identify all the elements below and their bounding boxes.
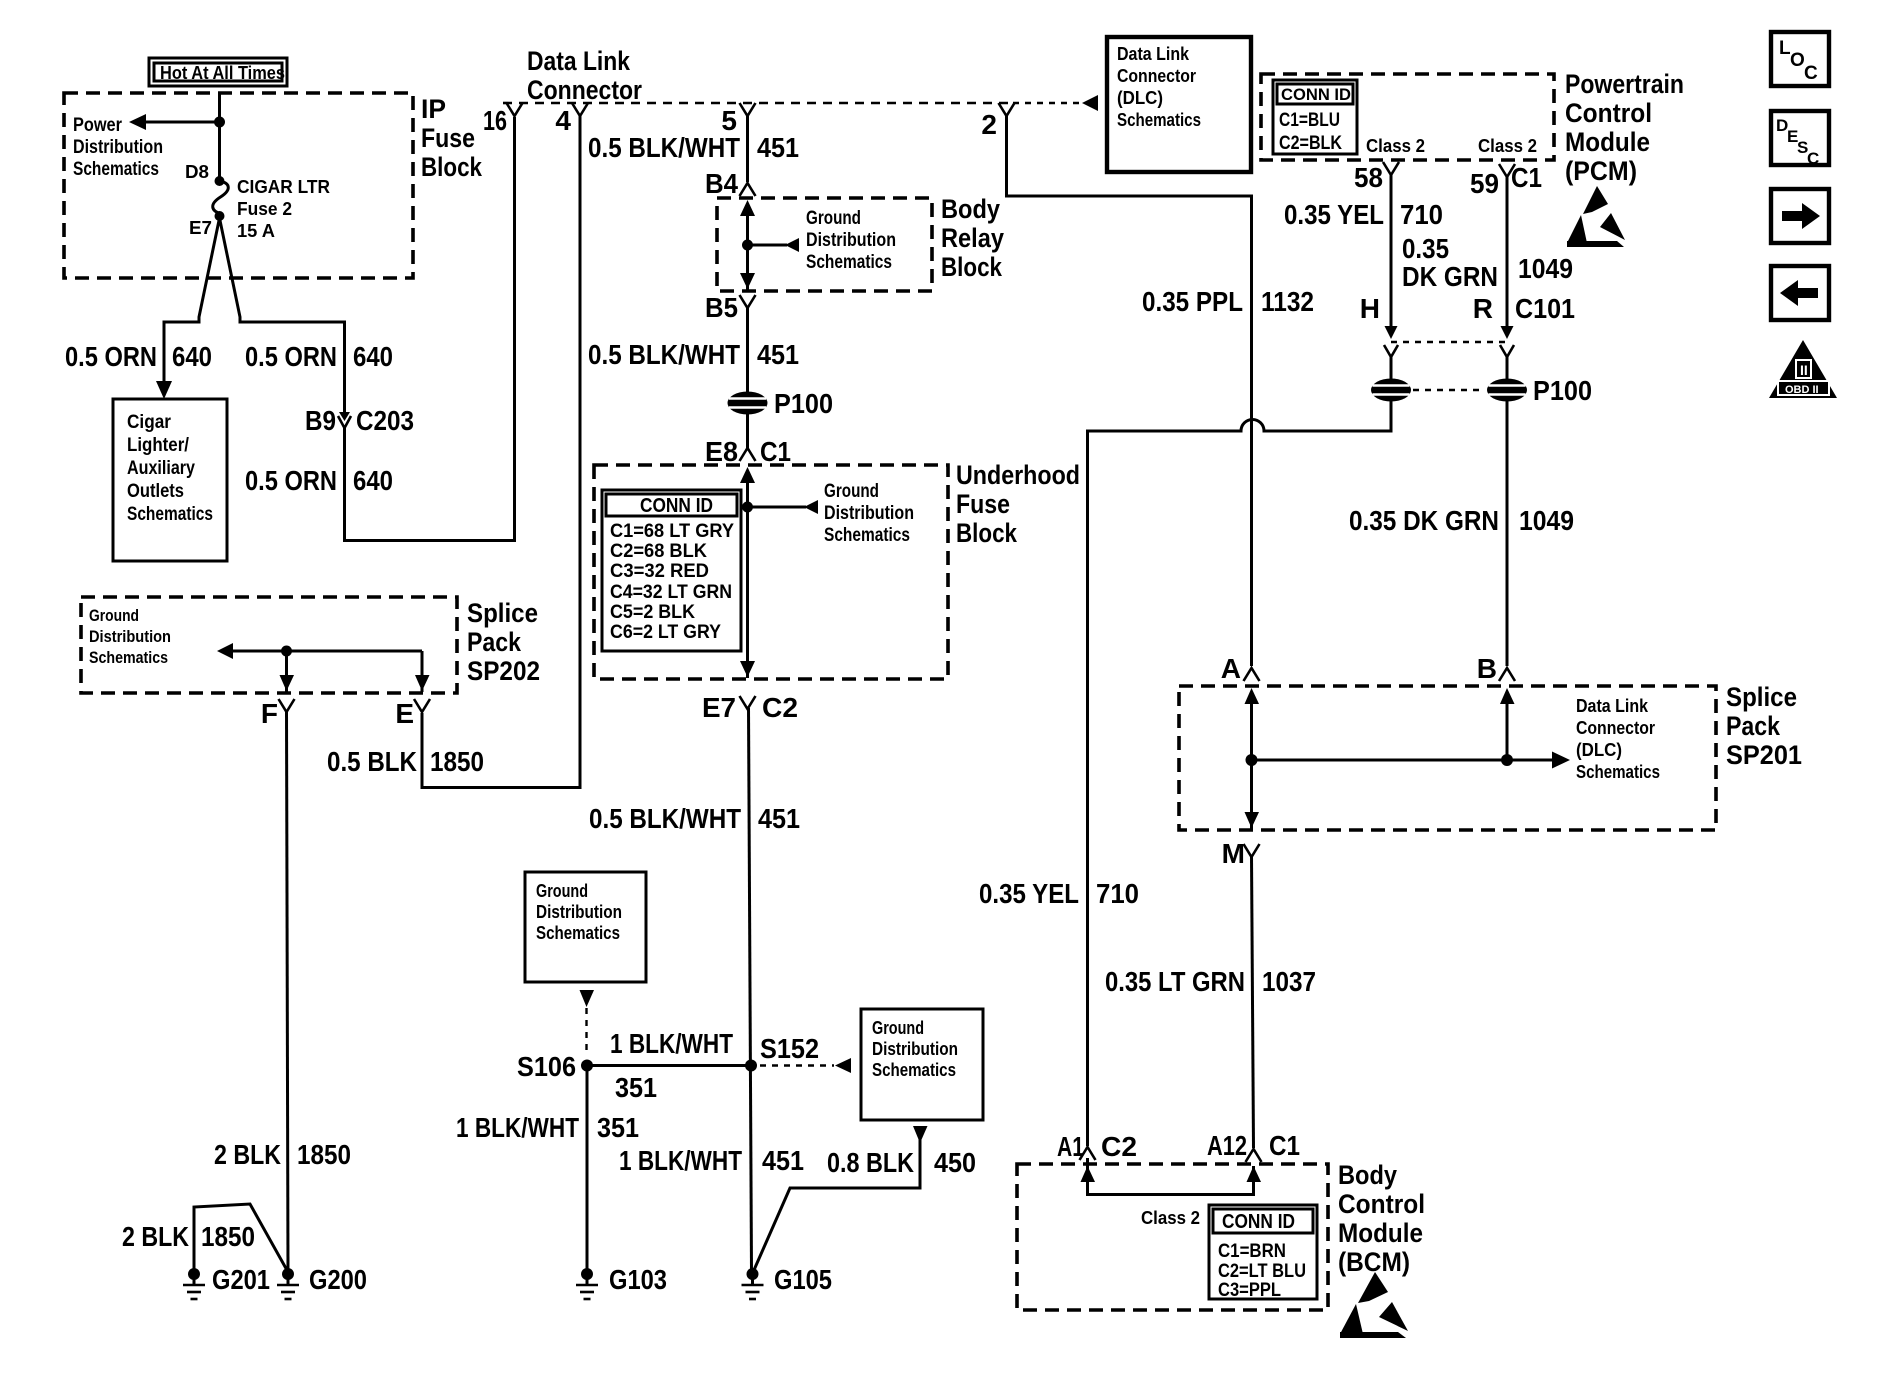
dashed connector face C101	[1391, 341, 1507, 343]
connector B4	[705, 168, 756, 199]
svg-text:Block: Block	[941, 252, 1003, 282]
svg-text:640: 640	[353, 341, 393, 372]
reference arrow to Ground Distribution Schematics (SP202)	[89, 606, 422, 667]
wire DLC pin 2 to PPL column	[1007, 115, 1252, 666]
connector C101 terminal H	[1360, 293, 1398, 357]
wire B5 to P100	[746, 307, 749, 392]
svg-text:Fuse: Fuse	[956, 489, 1010, 519]
CONN ID table (PCM)	[1273, 80, 1357, 154]
svg-text:Pack: Pack	[1726, 711, 1781, 741]
node D8	[215, 176, 225, 186]
svg-text:Distribution: Distribution	[806, 230, 896, 251]
svg-text:Schematics: Schematics	[806, 252, 892, 273]
pass-through grommet P100	[728, 388, 834, 419]
ESD symbol (PCM)	[1567, 186, 1625, 247]
svg-text:Module: Module	[1338, 1218, 1423, 1248]
svg-text:C4=32 LT GRN: C4=32 LT GRN	[610, 582, 732, 603]
svg-text:Schematics: Schematics	[1117, 110, 1201, 130]
junction node in underhood fuse block	[742, 502, 753, 513]
svg-text:C1=BRN: C1=BRN	[1218, 1241, 1286, 1262]
CONN ID table (underhood fuse block)	[602, 490, 741, 651]
terminal M (SP201)	[1222, 838, 1260, 869]
pin 16	[483, 103, 523, 136]
wire from hot feed into fuse block	[218, 93, 221, 181]
wire 0.8 BLK 450 to G105	[754, 1126, 928, 1270]
svg-text:P100: P100	[774, 388, 833, 419]
svg-text:451: 451	[757, 339, 799, 370]
svg-text:Splice: Splice	[1726, 682, 1797, 712]
svg-text:C1: C1	[760, 436, 791, 467]
ESD symbol (BCM)	[1340, 1272, 1408, 1338]
svg-text:Outlets: Outlets	[127, 481, 184, 502]
svg-text:CONN ID: CONN ID	[640, 495, 713, 517]
svg-text:Lighter/: Lighter/	[127, 435, 190, 456]
svg-text:R: R	[1473, 293, 1493, 324]
svg-text:Module: Module	[1565, 127, 1650, 157]
svg-text:Body: Body	[1338, 1160, 1397, 1190]
wire left branch from fuse E7	[164, 218, 220, 390]
wire drop to E	[415, 651, 430, 692]
label Underhood Fuse Block	[956, 460, 1080, 548]
svg-text:C3=PPL: C3=PPL	[1218, 1280, 1281, 1301]
terminal A12 / C1 (BCM)	[1207, 1130, 1300, 1162]
svg-text:D8: D8	[185, 162, 209, 182]
dashed reference line to DLC schematics box	[1013, 95, 1098, 111]
svg-text:0.35 YEL: 0.35 YEL	[979, 878, 1079, 909]
svg-text:Ground: Ground	[536, 881, 588, 901]
svg-text:A12: A12	[1207, 1130, 1247, 1161]
cigar lighter/auxiliary outlets schematics box	[113, 399, 227, 561]
arrow into cigar lighter schematics	[156, 381, 172, 399]
pin 59 / C1	[1470, 162, 1542, 199]
ground distribution schematics box (S152)	[861, 1009, 983, 1120]
svg-text:15 A: 15 A	[237, 221, 275, 241]
svg-text:CONN ID: CONN ID	[1281, 85, 1351, 104]
svg-text:Underhood: Underhood	[956, 460, 1080, 490]
svg-text:Data Link: Data Link	[1117, 44, 1190, 64]
svg-text:Auxiliary: Auxiliary	[127, 458, 195, 479]
svg-text:Block: Block	[956, 518, 1018, 548]
underhood fuse block (dashed)	[594, 465, 948, 679]
svg-text:SP202: SP202	[467, 656, 540, 686]
svg-text:1132: 1132	[1261, 286, 1314, 317]
svg-text:C5=2 BLK: C5=2 BLK	[610, 602, 695, 623]
wire R to P100	[1506, 357, 1509, 380]
svg-text:Schematics: Schematics	[127, 504, 213, 525]
svg-text:Cigar: Cigar	[127, 412, 172, 433]
svg-text:1850: 1850	[430, 746, 484, 777]
svg-text:(DLC): (DLC)	[1576, 740, 1622, 760]
svg-text:O: O	[1790, 50, 1805, 71]
svg-text:451: 451	[758, 803, 800, 834]
ground G105	[742, 1264, 833, 1299]
svg-text:Schematics: Schematics	[1576, 762, 1660, 782]
terminal B (SP201)	[1477, 653, 1515, 684]
terminal F	[261, 698, 295, 729]
svg-text:G200: G200	[309, 1264, 367, 1295]
svg-text:Body: Body	[941, 194, 1000, 224]
svg-text:1850: 1850	[201, 1221, 255, 1252]
svg-text:G103: G103	[609, 1264, 667, 1295]
sidebar icon LOC	[1771, 32, 1829, 86]
svg-text:Data Link: Data Link	[527, 46, 631, 76]
pin 5	[721, 103, 755, 136]
connector B9 / C203	[305, 405, 414, 542]
svg-text:E: E	[395, 698, 414, 729]
svg-text:F: F	[261, 698, 278, 729]
svg-text:Distribution: Distribution	[536, 902, 622, 922]
svg-text:Distribution: Distribution	[824, 503, 914, 524]
fuse CIGAR LTR Fuse 2 15 A	[213, 181, 229, 214]
svg-text:351: 351	[615, 1072, 657, 1103]
svg-text:E8: E8	[705, 436, 738, 467]
svg-text:Schematics: Schematics	[89, 648, 168, 667]
svg-text:Control: Control	[1338, 1189, 1425, 1219]
svg-text:(BCM): (BCM)	[1338, 1247, 1410, 1277]
reference arrow to Ground Distribution Schematics	[748, 481, 915, 546]
svg-text:0.35 YEL: 0.35 YEL	[1284, 199, 1384, 230]
svg-text:C: C	[1804, 63, 1818, 84]
wire S106 down to G103	[586, 1066, 589, 1273]
svg-text:640: 640	[353, 465, 393, 496]
svg-text:C6=2 LT GRY: C6=2 LT GRY	[610, 622, 721, 643]
svg-text:0.5 ORN: 0.5 ORN	[245, 465, 337, 496]
sidebar icon OBD II triangle	[1769, 340, 1837, 398]
svg-text:C2=LT BLU: C2=LT BLU	[1218, 1261, 1306, 1282]
svg-text:B4: B4	[705, 168, 738, 199]
svg-text:451: 451	[762, 1145, 804, 1176]
svg-text:C1: C1	[1511, 162, 1542, 193]
svg-text:0.5 ORN: 0.5 ORN	[65, 341, 157, 372]
svg-text:2 BLK: 2 BLK	[214, 1139, 281, 1170]
svg-text:Schematics: Schematics	[872, 1060, 956, 1080]
pin 2	[981, 103, 1014, 140]
sidebar icon back arrow	[1771, 266, 1829, 320]
label IP Fuse Block	[421, 94, 483, 182]
wire PCM 58 down to C101 H	[1390, 174, 1393, 332]
svg-text:C2: C2	[1101, 1131, 1137, 1162]
svg-text:Schematics: Schematics	[73, 159, 159, 180]
pin 58	[1354, 162, 1399, 193]
label Splice Pack SP202	[467, 598, 540, 686]
wire DK GRN from P100 right down to SP201 B	[1506, 401, 1509, 666]
svg-text:0.5 BLK/WHT: 0.5 BLK/WHT	[589, 803, 741, 834]
wire G201 joining G200	[194, 1204, 288, 1272]
terminal A1 / C2 (BCM)	[1057, 1131, 1137, 1162]
wire M down to BCM A12	[1252, 856, 1254, 1148]
svg-text:1049: 1049	[1519, 505, 1574, 536]
reference arrow to Data Link Connector (DLC) Schematics	[1252, 696, 1661, 782]
svg-text:351: 351	[597, 1112, 639, 1143]
body relay block (dashed)	[717, 198, 932, 291]
wire E7/C2 down to S152 and G105	[749, 708, 752, 1272]
svg-text:Ground: Ground	[806, 208, 861, 229]
svg-text:CONN ID: CONN ID	[1222, 1211, 1295, 1233]
svg-text:16: 16	[483, 105, 507, 136]
wire P100 to E8	[746, 414, 749, 448]
terminal A (SP201)	[1221, 653, 1260, 684]
svg-text:Ground: Ground	[824, 481, 879, 502]
dashed reference arrow from S152	[760, 1058, 851, 1073]
label 0.35 DK GRN 1049	[1402, 233, 1573, 292]
ground G200	[277, 1264, 367, 1299]
svg-text:2 BLK: 2 BLK	[122, 1221, 189, 1252]
svg-text:B5: B5	[705, 292, 738, 323]
svg-text:1 BLK/WHT: 1 BLK/WHT	[456, 1112, 579, 1143]
svg-text:G105: G105	[774, 1264, 832, 1295]
svg-text:Class 2: Class 2	[1478, 136, 1537, 156]
svg-text:E7: E7	[702, 692, 736, 723]
svg-text:Powertrain: Powertrain	[1565, 69, 1684, 99]
dashed reference wire down to S106	[580, 990, 595, 1056]
ground distribution schematics box (S106)	[525, 872, 646, 982]
svg-text:Connector: Connector	[1117, 66, 1196, 86]
svg-text:H: H	[1360, 293, 1380, 324]
svg-text:59: 59	[1470, 168, 1499, 199]
dashed tie between P100 grommets	[1413, 389, 1485, 391]
junction node on feed	[214, 117, 225, 128]
wire A through SP201	[1245, 688, 1260, 829]
svg-text:Connector: Connector	[1576, 718, 1655, 738]
reference arrow to Ground Distribution Schematics	[748, 208, 897, 273]
svg-text:C2=BLK: C2=BLK	[1279, 133, 1342, 154]
svg-text:640: 640	[172, 341, 212, 372]
svg-text:SP201: SP201	[1726, 740, 1802, 770]
svg-text:Splice: Splice	[467, 598, 538, 628]
svg-text:S106: S106	[517, 1051, 576, 1082]
svg-text:Data Link: Data Link	[1576, 696, 1649, 716]
wire S106 to S152	[587, 1064, 751, 1067]
svg-text:4: 4	[555, 105, 571, 136]
svg-text:G201: G201	[212, 1264, 270, 1295]
IP fuse block (dashed)	[64, 93, 413, 278]
wire DLC pin 5 to B4	[746, 115, 749, 182]
svg-text:2: 2	[981, 109, 997, 140]
svg-text:0.35 LT GRN: 0.35 LT GRN	[1105, 966, 1245, 997]
svg-text:Hot At All Times: Hot At All Times	[160, 63, 285, 83]
svg-text:1 BLK/WHT: 1 BLK/WHT	[619, 1145, 742, 1176]
svg-text:1 BLK/WHT: 1 BLK/WHT	[610, 1028, 733, 1059]
svg-text:Ground: Ground	[89, 606, 139, 625]
wire drop to F	[280, 651, 295, 692]
svg-text:(DLC): (DLC)	[1117, 88, 1163, 108]
svg-text:Ground: Ground	[872, 1018, 924, 1038]
svg-text:0.5 ORN: 0.5 ORN	[245, 341, 337, 372]
svg-text:710: 710	[1400, 199, 1443, 230]
svg-text:C2=68 BLK: C2=68 BLK	[610, 541, 707, 562]
label Powertrain Control Module (PCM)	[1565, 69, 1684, 186]
svg-text:C1: C1	[1269, 1130, 1300, 1161]
svg-text:P100: P100	[1533, 375, 1592, 406]
svg-text:Fuse: Fuse	[421, 123, 475, 153]
pass-through grommet P100 (right)	[1487, 375, 1592, 406]
svg-text:Power: Power	[73, 115, 123, 136]
svg-text:(PCM): (PCM)	[1565, 156, 1637, 186]
svg-text:Schematics: Schematics	[536, 923, 620, 943]
splice S152	[745, 1033, 819, 1072]
svg-text:0.5 BLK: 0.5 BLK	[327, 746, 417, 777]
hot at all times label box	[149, 58, 287, 86]
pin 4	[555, 103, 588, 136]
svg-text:M: M	[1222, 838, 1245, 869]
svg-text:58: 58	[1354, 162, 1383, 193]
svg-text:B9: B9	[305, 405, 336, 436]
wire YEL from P100 left with crossover to BCM column	[1088, 401, 1392, 1146]
svg-text:0.35: 0.35	[1402, 233, 1449, 264]
svg-text:S152: S152	[760, 1033, 819, 1064]
svg-text:Relay: Relay	[941, 223, 1004, 253]
label Body Relay Block	[941, 194, 1004, 282]
splice S106	[517, 1051, 593, 1082]
wire through underhood fuse block	[740, 467, 755, 678]
svg-text:C3=32 RED: C3=32 RED	[610, 561, 709, 582]
wire F down to ground G200	[287, 711, 289, 1272]
svg-text:Schematics: Schematics	[824, 525, 910, 546]
data link connector label	[527, 46, 642, 105]
svg-text:450: 450	[934, 1147, 976, 1178]
pass-through grommet P100 (left)	[1371, 379, 1411, 402]
svg-text:0.5 BLK/WHT: 0.5 BLK/WHT	[588, 132, 740, 163]
splice pack SP202 (dashed)	[81, 597, 457, 693]
data link connector dashed face	[503, 102, 1013, 105]
sidebar icon DESC	[1771, 111, 1829, 168]
connector C101 terminal R	[1473, 293, 1575, 357]
svg-text:451: 451	[757, 132, 799, 163]
svg-text:0.8 BLK: 0.8 BLK	[827, 1147, 914, 1178]
connector B5	[705, 292, 756, 323]
ground G201	[183, 1264, 270, 1299]
wire H to P100	[1390, 357, 1393, 380]
svg-text:0.35 DK GRN: 0.35 DK GRN	[1349, 505, 1499, 536]
svg-text:1049: 1049	[1518, 253, 1573, 284]
powertrain control module (dashed)	[1261, 74, 1554, 160]
svg-text:Connector: Connector	[527, 75, 642, 105]
reference arrow to Power Distribution Schematics	[73, 114, 220, 180]
splice pack SP201 (dashed)	[1179, 686, 1716, 830]
svg-text:Control: Control	[1565, 98, 1652, 128]
svg-text:1850: 1850	[297, 1139, 351, 1170]
svg-text:C1=BLU: C1=BLU	[1279, 110, 1340, 131]
body control module (dashed)	[1017, 1164, 1328, 1310]
svg-text:Class 2: Class 2	[1141, 1208, 1200, 1228]
label Body Control Module (BCM)	[1338, 1160, 1425, 1277]
svg-text:OBD II: OBD II	[1785, 384, 1819, 396]
svg-text:B: B	[1477, 653, 1497, 684]
terminal E	[395, 698, 430, 729]
svg-text:C: C	[1807, 149, 1819, 168]
CONN ID table (BCM)	[1209, 1205, 1317, 1301]
svg-text:1037: 1037	[1262, 966, 1316, 997]
svg-text:C203: C203	[356, 405, 414, 436]
svg-text:0.35 PPL: 0.35 PPL	[1142, 286, 1243, 317]
svg-text:C101: C101	[1515, 293, 1575, 324]
svg-text:CIGAR LTR: CIGAR LTR	[237, 177, 330, 197]
svg-text:Pack: Pack	[467, 627, 522, 657]
wire B into SP201	[1500, 688, 1515, 760]
svg-text:E7: E7	[189, 218, 212, 238]
svg-text:Fuse 2: Fuse 2	[237, 199, 292, 219]
svg-text:DK GRN: DK GRN	[1402, 261, 1498, 292]
wire DLC pin 4 down to splice pack SP202 terminal E	[422, 115, 580, 788]
svg-text:IP: IP	[421, 94, 446, 124]
wire right branch from fuse E7	[220, 218, 345, 413]
svg-text:C2: C2	[762, 692, 798, 723]
svg-text:Distribution: Distribution	[73, 137, 163, 158]
junction node in body relay block	[742, 240, 753, 251]
connector E8 / C1	[705, 436, 791, 467]
svg-text:Distribution: Distribution	[872, 1039, 958, 1059]
splice bus node F	[281, 646, 292, 657]
svg-text:Block: Block	[421, 152, 483, 182]
svg-text:Class 2: Class 2	[1366, 136, 1425, 156]
ground G103	[576, 1264, 667, 1299]
splice bus node B	[1501, 754, 1513, 766]
svg-text:Distribution: Distribution	[89, 627, 171, 646]
svg-text:0.5 BLK/WHT: 0.5 BLK/WHT	[588, 339, 740, 370]
splice bus node A	[1246, 754, 1258, 766]
wire link A1 to A12 inside BCM	[1081, 1158, 1262, 1195]
svg-text:A: A	[1221, 653, 1241, 684]
connector E7 / C2	[702, 692, 798, 723]
data link connector (DLC) schematics box	[1107, 37, 1251, 172]
wire to DLC pin 16	[345, 117, 515, 541]
wire through body relay block	[740, 200, 755, 290]
svg-text:710: 710	[1096, 878, 1139, 909]
label Splice Pack SP201	[1726, 682, 1802, 770]
wire PCM 59 down to C101 R	[1506, 176, 1509, 332]
svg-text:C1=68 LT GRY: C1=68 LT GRY	[610, 521, 734, 542]
sidebar icon forward arrow	[1771, 189, 1829, 243]
svg-text:II: II	[1800, 362, 1808, 378]
